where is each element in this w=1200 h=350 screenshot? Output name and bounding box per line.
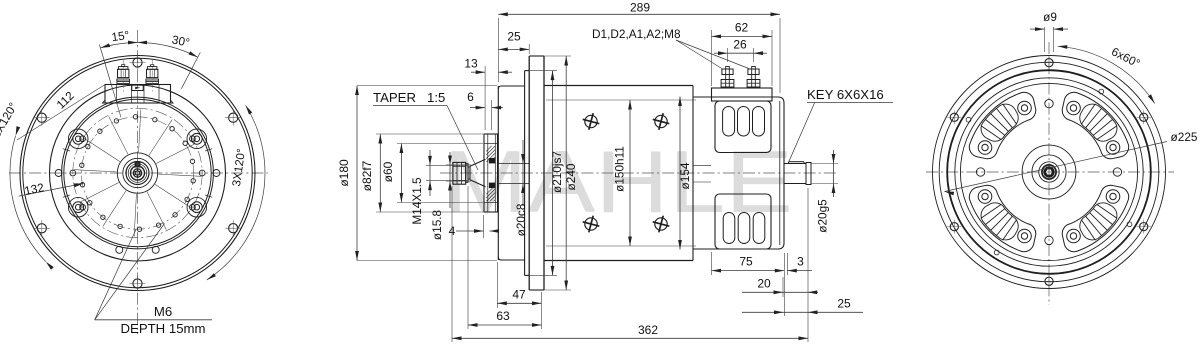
svg-text:362: 362 <box>638 323 658 337</box>
seam tick marks <box>205 149 212 151</box>
grille band at 225deg <box>981 203 1018 240</box>
rear bolt holes 6x o9 <box>1045 59 1053 67</box>
top block vent slots <box>723 107 735 137</box>
svg-text:ø240: ø240 <box>564 163 578 190</box>
grille band at 315deg <box>981 104 1018 141</box>
svg-text:ø210js7: ø210js7 <box>550 151 564 193</box>
svg-text:62: 62 <box>735 21 749 35</box>
rear vent window at 135deg <box>1062 185 1128 251</box>
front housing cylinder ø180 <box>497 86 499 260</box>
dim o60 <box>400 144 402 203</box>
shaft seals (black) <box>489 158 495 163</box>
rear vent window at 45deg <box>1062 92 1128 158</box>
bottom brush cover block <box>715 194 771 249</box>
svg-text:25: 25 <box>507 30 521 44</box>
rear housing center details <box>693 164 711 166</box>
terminal box <box>105 85 171 104</box>
dim o240 <box>565 56 567 290</box>
svg-text:75: 75 <box>739 255 753 269</box>
svg-text:ø180: ø180 <box>337 159 351 187</box>
svg-text:ø150h11: ø150h11 <box>613 146 627 192</box>
taper cone <box>470 159 486 166</box>
svg-text:ø82f7: ø82f7 <box>360 160 374 191</box>
M6 depth leaders <box>95 319 212 321</box>
svg-text:ø225: ø225 <box>1171 130 1198 144</box>
shaft ø20c8 lines <box>498 163 530 165</box>
svg-text:15°: 15° <box>111 28 131 44</box>
132 leader <box>19 184 84 197</box>
front view housing seam circles <box>62 97 214 249</box>
rear studs <box>726 67 730 89</box>
dim o20g5 <box>811 163 838 165</box>
dim o180 <box>356 86 358 261</box>
3X120 arcs <box>10 136 46 262</box>
spigot ring ø210 <box>524 71 526 276</box>
shaft hex nut <box>453 162 466 184</box>
terminal studs on box <box>117 79 130 81</box>
main barrel ø180 <box>544 85 693 87</box>
front view hub circles <box>117 153 157 193</box>
grille rungs at 45deg <box>1081 104 1095 125</box>
dim 4 <box>456 230 484 232</box>
rear housing ø154 <box>693 96 778 98</box>
15deg/30deg angular dimension rays <box>99 45 112 89</box>
svg-text:D1,D2,A1,A2;M8: D1,D2,A1,A2;M8 <box>592 27 681 41</box>
dim o150h11 <box>629 100 631 246</box>
rear vent window at 315deg <box>969 92 1035 158</box>
seam spot holes <box>55 170 62 177</box>
dim o15.8 <box>449 152 451 208</box>
flange plate ø240 <box>528 56 530 290</box>
key <box>789 161 805 163</box>
dim 13 <box>484 66 486 130</box>
dim 362 <box>451 186 453 342</box>
svg-text:6: 6 <box>467 90 474 104</box>
dim 63 <box>467 186 469 329</box>
plate hatching top <box>484 140 498 193</box>
svg-text:ø15.8: ø15.8 <box>430 209 444 240</box>
grille band at 45deg <box>1080 104 1117 141</box>
grille rungs at 225deg <box>1003 220 1017 241</box>
svg-text:3: 3 <box>797 255 804 269</box>
dim 6 <box>491 100 493 130</box>
dim 62 <box>711 30 713 86</box>
svg-text:289: 289 <box>630 1 650 15</box>
front view flange outer circles (ø240) <box>20 56 255 291</box>
window screws at 135deg <box>1106 190 1120 204</box>
dim M14X1.5 <box>429 150 431 196</box>
svg-text:63: 63 <box>496 309 510 323</box>
svg-text:25: 25 <box>837 297 851 311</box>
spoke screws 4x <box>1045 99 1053 107</box>
grille rungs at 135deg <box>1097 204 1118 218</box>
svg-text:M6: M6 <box>154 304 172 319</box>
dim o82f7 <box>379 134 381 212</box>
dim o20c8 <box>522 140 524 206</box>
112 leader line <box>17 85 104 140</box>
svg-text:TAPER 1:5: TAPER 1:5 <box>373 90 445 105</box>
rear view centerlines <box>1048 42 1050 305</box>
30deg arc <box>138 42 198 57</box>
top brush cover block <box>715 101 771 153</box>
o225 leader <box>945 142 1168 192</box>
front view barrel circle (ø180) <box>50 85 226 261</box>
small middle terminal <box>132 85 143 90</box>
shaft washer <box>466 164 468 183</box>
grille rungs at 315deg <box>981 126 1002 140</box>
small hole at 135deg quadrant <box>1127 222 1132 227</box>
small hole at 225deg quadrant <box>994 250 999 255</box>
front cover screws 4x <box>187 129 207 149</box>
front view ø112 bolt circle (dash-dot) <box>81 117 193 229</box>
small hole at 45deg quadrant <box>1099 89 1104 94</box>
rear hub <box>1022 145 1076 199</box>
side view centerline <box>440 172 838 174</box>
dim 3 <box>786 253 788 275</box>
radial centerlines <box>139 110 141 152</box>
window screws at 45deg <box>1067 101 1081 115</box>
plate hatching bottom <box>484 183 498 236</box>
dim 75 <box>711 252 713 275</box>
rear outer circles <box>933 56 1166 289</box>
thread stub <box>468 167 470 179</box>
small hole at 315deg quadrant <box>966 117 971 122</box>
dim 25 <box>528 44 530 54</box>
svg-text:ø154: ø154 <box>678 162 692 189</box>
svg-text:ø20g5: ø20g5 <box>816 199 830 233</box>
hub keyway <box>135 162 140 167</box>
svg-text:ø60: ø60 <box>381 161 395 182</box>
dim o210js7 <box>552 71 554 276</box>
15deg radial inner part <box>113 89 122 118</box>
front view centerlines <box>137 30 139 334</box>
15deg arc <box>100 43 137 48</box>
shaft serration <box>135 170 140 176</box>
svg-text:13: 13 <box>464 57 478 71</box>
rear vent window at 225deg <box>969 185 1035 251</box>
svg-text:ø9: ø9 <box>1043 10 1057 24</box>
front view ø132 circle (dash-dot) <box>73 108 202 237</box>
dim 20 <box>742 291 818 293</box>
rear cover circles <box>955 78 1143 266</box>
grille band at 135deg <box>1080 203 1117 240</box>
rear housing circle thick <box>947 70 1151 274</box>
ø112 holes <box>133 115 137 119</box>
dim 26 <box>727 48 729 62</box>
dim o9 <box>1044 27 1046 52</box>
barrel screws 4x <box>585 115 597 127</box>
dim 47 <box>496 262 498 308</box>
6x60 arc <box>1058 46 1155 103</box>
svg-text:26: 26 <box>733 38 747 52</box>
dim 25 rear <box>742 311 863 313</box>
svg-text:47: 47 <box>512 288 526 302</box>
bearing plate (ø82) <box>484 134 498 212</box>
svg-text:M14X1.5: M14X1.5 <box>410 177 424 225</box>
svg-text:DEPTH 15mm: DEPTH 15mm <box>121 321 206 336</box>
terminal plinth <box>712 88 773 101</box>
bottom block vent slots <box>723 213 735 244</box>
window screws at 225deg <box>1018 229 1032 243</box>
window screws at 315deg <box>978 141 992 155</box>
svg-text:ø20c8: ø20c8 <box>514 203 528 236</box>
dim o154 <box>679 97 681 250</box>
dim 289 <box>497 18 499 82</box>
rear shaft stub ø20g5 <box>784 163 806 165</box>
svg-text:KEY 6X6X16: KEY 6X6X16 <box>807 87 884 102</box>
ø132 M6 holes <box>190 136 196 142</box>
front flange bolt holes 6x <box>133 58 142 67</box>
svg-text:20: 20 <box>757 277 771 291</box>
